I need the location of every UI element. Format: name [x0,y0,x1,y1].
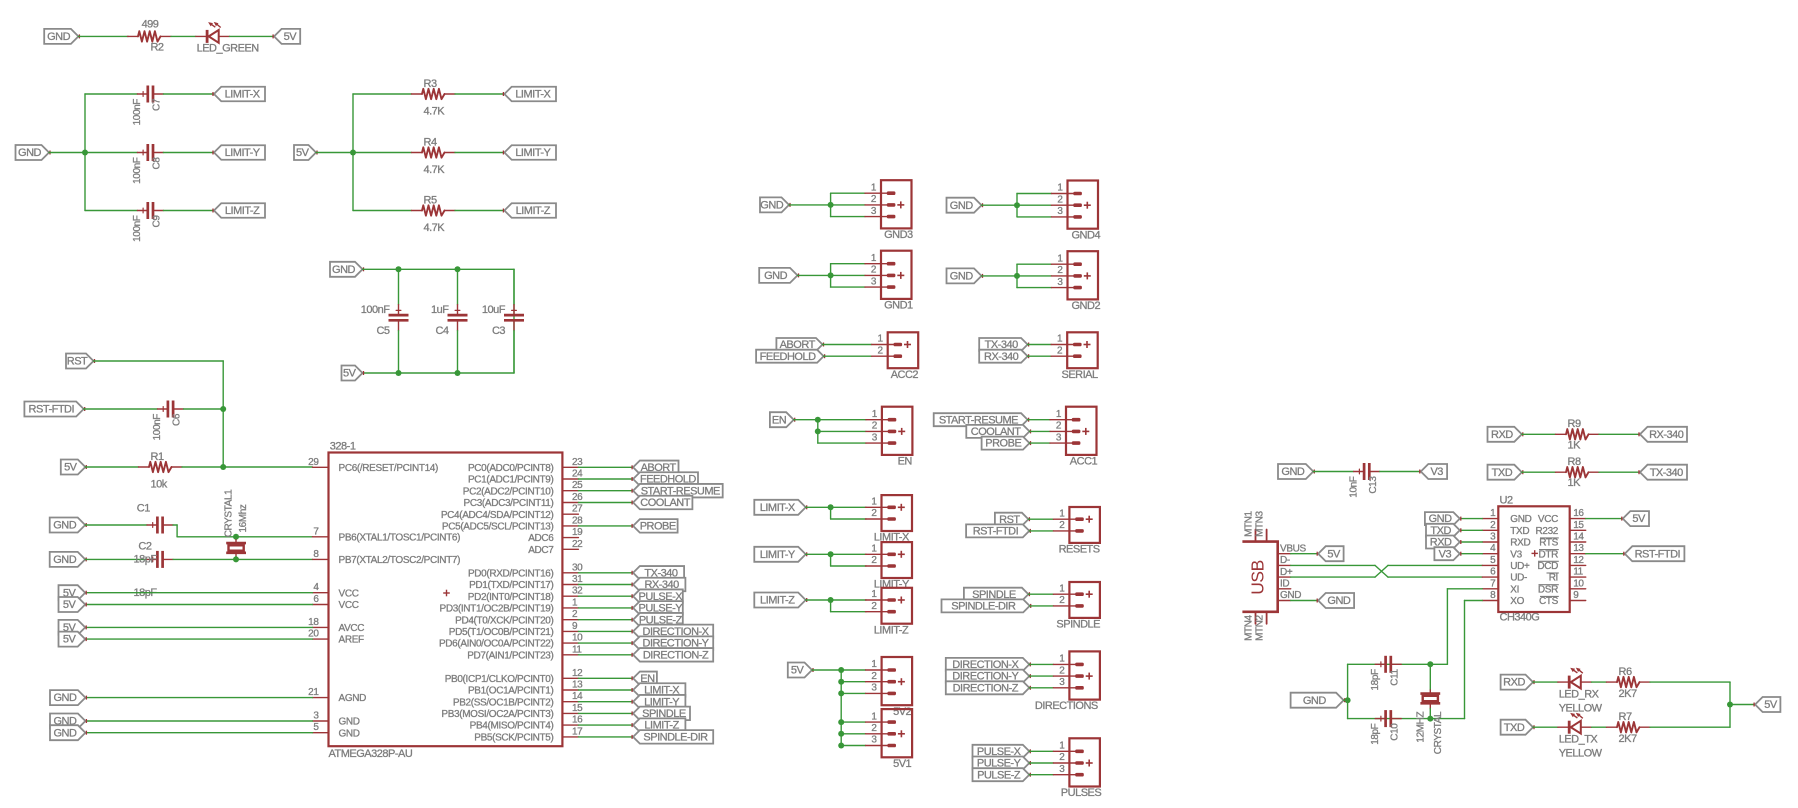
svg-text:V3: V3 [1510,549,1522,560]
svg-text:MTN1: MTN1 [1244,510,1255,536]
svg-text:PB0(ICP1/CLKO/PCINT0): PB0(ICP1/CLKO/PCINT0) [445,674,554,685]
svg-text:9: 9 [572,621,578,632]
svg-text:5V: 5V [64,462,78,474]
svg-text:20: 20 [308,629,319,640]
svg-text:PC3(ADC3/PCINT11): PC3(ADC3/PCINT11) [464,498,554,509]
svg-text:VCC: VCC [339,600,359,611]
svg-text:CH340G: CH340G [1500,612,1540,624]
svg-text:12: 12 [1573,555,1584,566]
svg-text:1K: 1K [1568,439,1582,451]
svg-text:1: 1 [871,497,877,508]
svg-text:1: 1 [1056,409,1062,420]
svg-text:LIMIT-Z: LIMIT-Z [225,205,260,217]
svg-text:LIMIT-X: LIMIT-X [225,89,261,101]
svg-text:3: 3 [871,276,877,287]
svg-text:GND: GND [47,31,71,43]
svg-text:RXD: RXD [1503,677,1525,689]
svg-text:2: 2 [1057,194,1063,205]
svg-text:EN: EN [898,456,913,468]
svg-text:LIMIT-Z: LIMIT-Z [516,205,551,217]
svg-text:PD6(AIN0/OC0A/PCINT22): PD6(AIN0/OC0A/PCINT22) [439,639,554,650]
svg-text:2: 2 [871,723,877,734]
svg-text:14: 14 [1573,532,1584,543]
svg-text:CRYSTAL: CRYSTAL [1433,711,1444,754]
svg-text:GND: GND [339,717,360,728]
svg-text:PC4(ADC4/SDA/PCINT12): PC4(ADC4/SDA/PCINT12) [441,510,554,521]
svg-text:SERIAL: SERIAL [1062,369,1099,381]
svg-text:5V: 5V [791,665,805,677]
svg-text:ID: ID [1280,579,1289,590]
svg-text:ACC1: ACC1 [1070,456,1098,468]
svg-text:1: 1 [1059,654,1065,665]
svg-text:GND1: GND1 [884,300,913,312]
svg-text:R4: R4 [424,137,437,149]
svg-text:32: 32 [572,586,583,597]
svg-text:DCD: DCD [1537,561,1558,572]
svg-text:DIRECTIONS: DIRECTIONS [1035,700,1098,712]
svg-text:AREF: AREF [339,635,365,646]
svg-text:100nF: 100nF [361,304,390,316]
svg-text:PD5(T1/OC0B/PCINT21): PD5(T1/OC0B/PCINT21) [449,627,554,638]
svg-text:5V2: 5V2 [893,706,911,718]
svg-text:2: 2 [871,555,877,566]
svg-text:U2: U2 [1500,495,1513,507]
svg-text:FEEDHOLD: FEEDHOLD [760,351,816,363]
svg-text:SPINDLE-DIR: SPINDLE-DIR [951,601,1016,613]
svg-text:C10: C10 [1389,723,1400,741]
svg-text:1: 1 [1057,183,1063,194]
svg-text:5V: 5V [1764,699,1778,711]
svg-text:25: 25 [572,480,583,491]
svg-text:C6: C6 [172,413,183,426]
svg-text:GND: GND [1327,595,1351,607]
svg-text:328-1: 328-1 [330,441,356,453]
svg-text:R1: R1 [151,451,164,463]
svg-text:LED_GREEN: LED_GREEN [197,43,260,55]
svg-text:1: 1 [1059,508,1065,519]
svg-text:TXD: TXD [1492,467,1513,479]
svg-text:GND3: GND3 [884,229,913,241]
svg-text:1: 1 [1057,253,1063,264]
svg-text:2: 2 [1059,665,1065,676]
svg-text:PROBE: PROBE [985,438,1021,450]
svg-text:4: 4 [313,582,319,593]
svg-text:2: 2 [1056,421,1062,432]
svg-text:RESETS: RESETS [1059,544,1100,556]
svg-text:18pF: 18pF [1370,723,1381,744]
svg-text:GND: GND [1303,695,1327,707]
svg-text:29: 29 [308,457,319,468]
svg-text:PULSE-Z: PULSE-Z [977,769,1021,781]
svg-text:11: 11 [1573,567,1583,578]
svg-text:PB4(MISO/PCINT4): PB4(MISO/PCINT4) [470,721,554,732]
svg-text:10k: 10k [151,479,168,491]
svg-text:C4: C4 [435,325,448,337]
svg-text:DTR: DTR [1538,549,1558,560]
svg-text:10nF: 10nF [1348,476,1359,497]
svg-text:26: 26 [572,492,583,503]
svg-text:2: 2 [871,601,877,612]
svg-text:RTS: RTS [1539,538,1558,549]
svg-text:GND: GND [53,692,77,704]
svg-text:3: 3 [313,711,319,722]
svg-text:GND2: GND2 [1072,300,1101,312]
svg-text:2: 2 [871,508,877,519]
svg-text:5V: 5V [1327,548,1341,560]
svg-text:RXD: RXD [1491,429,1513,441]
svg-text:17: 17 [572,726,583,737]
svg-text:LIMIT-Y: LIMIT-Y [225,147,261,159]
svg-text:19: 19 [572,527,583,538]
svg-text:1: 1 [871,253,877,264]
svg-text:C5: C5 [376,325,389,337]
svg-text:2: 2 [572,609,578,620]
svg-text:13: 13 [1573,543,1584,554]
svg-text:1: 1 [1490,508,1496,519]
svg-text:TXD: TXD [1504,722,1525,734]
svg-text:21: 21 [308,687,319,698]
svg-text:23: 23 [572,457,583,468]
svg-text:PB7(XTAL2/TOSC2/PCINT7): PB7(XTAL2/TOSC2/PCINT7) [339,555,461,566]
svg-text:2K7: 2K7 [1619,688,1637,700]
svg-text:C7: C7 [152,98,163,111]
svg-text:4.7K: 4.7K [424,106,446,118]
svg-text:2: 2 [871,671,877,682]
svg-text:1: 1 [572,597,578,608]
svg-text:XI: XI [1510,584,1519,595]
svg-text:9: 9 [1573,590,1579,601]
svg-text:CTS: CTS [1539,596,1559,607]
svg-text:1: 1 [872,409,878,420]
svg-text:VCC: VCC [1538,514,1558,525]
svg-text:2: 2 [878,345,884,356]
svg-text:GND: GND [53,727,77,739]
svg-text:DIRECTION-Z: DIRECTION-Z [643,649,709,661]
svg-text:7: 7 [313,526,319,537]
svg-text:12MHZ: 12MHZ [1415,712,1426,743]
svg-text:GND4: GND4 [1072,229,1101,241]
svg-text:1: 1 [1059,583,1065,594]
svg-text:30: 30 [572,562,583,573]
svg-text:2: 2 [871,265,877,276]
svg-text:31: 31 [572,574,583,585]
svg-text:GND: GND [764,270,788,282]
svg-text:PC6(/RESET/PCINT14): PC6(/RESET/PCINT14) [339,463,439,474]
svg-text:C8: C8 [152,157,163,170]
svg-text:GND: GND [950,271,974,283]
svg-text:GND: GND [1510,514,1531,525]
svg-text:3: 3 [1490,532,1496,543]
svg-text:AGND: AGND [339,693,367,704]
svg-text:GND: GND [339,728,360,739]
svg-text:PC1(ADC1/PCINT9): PC1(ADC1/PCINT9) [468,475,554,486]
svg-text:D+: D+ [1280,567,1293,578]
svg-text:MTN2: MTN2 [1254,614,1265,640]
svg-text:2: 2 [872,421,878,432]
svg-text:UD-: UD- [1510,573,1527,584]
svg-text:ADC6: ADC6 [528,533,554,544]
svg-text:5V: 5V [284,31,298,43]
svg-text:16: 16 [572,715,583,726]
svg-text:24: 24 [572,469,583,480]
svg-text:VCC: VCC [339,588,359,599]
svg-text:2: 2 [1059,520,1065,531]
svg-text:3: 3 [1056,432,1062,443]
svg-text:PROBE: PROBE [640,521,676,533]
svg-text:C13: C13 [1368,476,1379,494]
svg-text:15: 15 [1573,520,1584,531]
svg-text:GND: GND [1280,590,1301,601]
svg-text:4.7K: 4.7K [424,222,446,234]
svg-text:10: 10 [572,633,583,644]
svg-text:GND: GND [1281,466,1305,478]
svg-text:R8: R8 [1568,456,1581,468]
svg-text:R2: R2 [150,42,163,54]
svg-text:RX-340: RX-340 [1649,429,1684,441]
svg-text:27: 27 [572,504,583,515]
svg-text:MTN3: MTN3 [1254,510,1265,536]
svg-text:C2: C2 [138,541,151,553]
svg-text:1: 1 [871,544,877,555]
svg-text:5: 5 [313,722,319,733]
svg-text:RST-FTDI: RST-FTDI [1635,548,1681,560]
svg-text:PD7(AIN1/PCINT23): PD7(AIN1/PCINT23) [467,650,553,661]
svg-text:8: 8 [313,549,319,560]
svg-text:TX-340: TX-340 [1650,467,1683,479]
svg-text:1: 1 [871,711,877,722]
svg-text:V3: V3 [1430,466,1443,478]
svg-text:16Mhz: 16Mhz [238,504,249,532]
svg-text:EN: EN [772,414,787,426]
svg-text:11: 11 [572,644,582,655]
svg-text:PC2(ADC2/PCINT10): PC2(ADC2/PCINT10) [463,486,554,497]
svg-text:YELLOW: YELLOW [1559,748,1603,760]
svg-text:PB1(OC1A/PCINT1): PB1(OC1A/PCINT1) [468,686,554,697]
svg-text:GND: GND [950,200,974,212]
svg-text:SPINDLE: SPINDLE [1056,619,1100,631]
svg-text:MTN4: MTN4 [1244,614,1255,640]
svg-text:PB5(SCK/PCINT5): PB5(SCK/PCINT5) [474,733,553,744]
svg-text:R5: R5 [424,195,437,207]
svg-text:PB6(XTAL1/TOSC1/PCINT6): PB6(XTAL1/TOSC1/PCINT6) [339,532,461,543]
svg-text:AVCC: AVCC [339,623,365,634]
svg-text:100nF: 100nF [132,157,143,184]
svg-text:YELLOW: YELLOW [1559,702,1603,714]
svg-text:499: 499 [142,18,159,30]
svg-text:LIMIT-Z: LIMIT-Z [874,624,909,636]
svg-text:1uF: 1uF [431,304,449,316]
svg-text:C3: C3 [492,325,505,337]
svg-text:10: 10 [1573,578,1584,589]
svg-text:4.7K: 4.7K [424,164,446,176]
svg-text:6: 6 [1490,567,1496,578]
svg-text:RX-340: RX-340 [984,351,1019,363]
svg-text:PD4(T0/XCK/PCINT20): PD4(T0/XCK/PCINT20) [455,615,553,626]
svg-text:15: 15 [572,703,583,714]
svg-text:6: 6 [313,594,319,605]
svg-text:3: 3 [1057,277,1063,288]
svg-text:PB3(MOSI/OC2A/PCINT3): PB3(MOSI/OC2A/PCINT3) [441,709,553,720]
svg-text:RXD: RXD [1510,538,1530,549]
svg-text:16: 16 [1573,508,1584,519]
svg-text:PULSES: PULSES [1061,787,1102,799]
svg-text:5: 5 [1490,555,1496,566]
svg-text:1: 1 [871,659,877,670]
svg-text:LIMIT-X: LIMIT-X [515,89,551,101]
svg-text:PD3(INT1/OC2B/PCINT19): PD3(INT1/OC2B/PCINT19) [440,604,554,615]
svg-text:18pF: 18pF [134,553,158,565]
svg-text:3: 3 [871,683,877,694]
svg-text:3: 3 [871,735,877,746]
svg-text:PD2(INT0/PCINT18): PD2(INT0/PCINT18) [468,592,554,603]
svg-text:18: 18 [308,617,319,628]
svg-text:5V: 5V [63,599,77,611]
svg-text:100nF: 100nF [152,414,163,441]
svg-text:DIRECTION-Z: DIRECTION-Z [953,682,1019,694]
svg-text:R3: R3 [424,78,437,90]
svg-text:LED_TX: LED_TX [1559,734,1599,746]
svg-text:100nF: 100nF [132,99,143,126]
svg-text:2: 2 [1059,752,1065,763]
svg-text:XO: XO [1510,596,1524,607]
svg-text:8: 8 [1490,590,1496,601]
svg-text:2: 2 [871,194,877,205]
svg-text:5V: 5V [343,368,357,380]
svg-text:4: 4 [1490,543,1496,554]
svg-text:1: 1 [871,182,877,193]
svg-text:PC5(ADC5/SCL/PCINT13): PC5(ADC5/SCL/PCINT13) [442,522,554,533]
svg-text:1: 1 [871,589,877,600]
svg-text:2: 2 [1490,520,1496,531]
svg-text:DSR: DSR [1538,584,1558,595]
svg-text:LIMIT-X: LIMIT-X [760,502,796,514]
svg-text:LED_RX: LED_RX [1559,688,1600,700]
svg-text:PD1(TXD/PCINT17): PD1(TXD/PCINT17) [469,580,553,591]
svg-text:RST-FTDI: RST-FTDI [29,404,75,416]
svg-text:D-: D- [1280,555,1290,566]
svg-text:GND: GND [53,554,77,566]
svg-text:LIMIT-Z: LIMIT-Z [760,595,795,607]
svg-text:PD0(RXD/PCINT16): PD0(RXD/PCINT16) [468,568,554,579]
svg-text:18pF: 18pF [1370,669,1381,690]
svg-text:UD+: UD+ [1510,561,1530,572]
svg-text:LIMIT-Y: LIMIT-Y [515,147,551,159]
svg-text:2: 2 [1059,595,1065,606]
svg-text:RI: RI [1549,573,1558,584]
svg-text:3: 3 [872,432,878,443]
svg-text:1K: 1K [1568,477,1582,489]
svg-text:ADC7: ADC7 [528,545,554,556]
svg-text:2: 2 [1057,345,1063,356]
svg-text:5V: 5V [1632,513,1646,525]
svg-text:R232: R232 [1535,526,1558,537]
svg-text:3: 3 [1059,677,1065,688]
svg-text:PC0(ADC0/PCINT8): PC0(ADC0/PCINT8) [468,463,554,474]
svg-text:R7: R7 [1619,711,1632,723]
svg-text:PB2(SS/OC1B/PCINT2): PB2(SS/OC1B/PCINT2) [453,697,554,708]
svg-text:2: 2 [1057,265,1063,276]
svg-text:SPINDLE-DIR: SPINDLE-DIR [643,732,708,744]
svg-text:14: 14 [572,691,583,702]
svg-text:2K7: 2K7 [1619,733,1637,745]
svg-text:RST-FTDI: RST-FTDI [973,526,1019,538]
svg-text:RST: RST [67,356,88,368]
svg-text:100nF: 100nF [132,215,143,242]
svg-text:1: 1 [878,334,884,345]
svg-text:LIMIT-Y: LIMIT-Y [760,549,796,561]
svg-text:22: 22 [572,539,583,550]
svg-text:1: 1 [1059,741,1065,752]
svg-text:COOLANT: COOLANT [640,497,690,509]
svg-text:ATMEGA328P-AU: ATMEGA328P-AU [329,748,413,760]
svg-text:TXD: TXD [1510,526,1529,537]
svg-text:3: 3 [871,206,877,217]
svg-text:10uF: 10uF [482,304,506,316]
svg-text:13: 13 [572,680,583,691]
svg-text:GND: GND [760,200,784,212]
svg-text:C9: C9 [152,215,163,228]
svg-text:GND: GND [18,147,42,159]
svg-text:3: 3 [1059,764,1065,775]
svg-text:7: 7 [1490,578,1496,589]
svg-text:GND: GND [53,520,77,532]
svg-text:R6: R6 [1619,666,1632,678]
svg-text:C11: C11 [1389,668,1400,685]
svg-text:GND: GND [332,264,356,276]
svg-text:28: 28 [572,515,583,526]
svg-text:5V1: 5V1 [893,758,911,770]
svg-text:5V: 5V [296,147,310,159]
svg-text:VBUS: VBUS [1280,543,1307,554]
svg-text:C1: C1 [137,503,150,515]
svg-text:5V: 5V [63,634,77,646]
svg-text:ACC2: ACC2 [891,369,919,381]
svg-text:1: 1 [1057,334,1063,345]
svg-text:3: 3 [1057,206,1063,217]
svg-text:R9: R9 [1568,418,1581,430]
svg-text:V3: V3 [1439,548,1452,560]
svg-text:CRYSTAL1: CRYSTAL1 [223,489,234,537]
svg-text:USB: USB [1247,560,1267,594]
svg-text:12: 12 [572,668,583,679]
